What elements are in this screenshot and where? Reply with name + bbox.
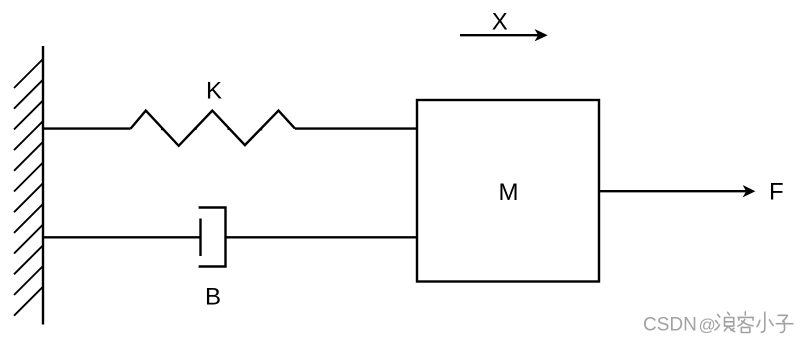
mass M box <box>417 100 599 282</box>
wire damper left lead <box>43 236 201 238</box>
hanzi lang right part <box>724 312 734 331</box>
svg-text:F: F <box>769 179 784 206</box>
arrow F shaft <box>599 190 746 192</box>
svg-text:@: @ <box>699 316 716 335</box>
damper B cylinder <box>199 208 226 267</box>
damper B piston <box>199 219 201 257</box>
arrow X shaft <box>460 34 538 36</box>
hanzi ke zhi <box>738 320 753 327</box>
svg-text:B: B <box>205 284 221 311</box>
wire spring left lead <box>43 127 131 129</box>
hanzi zi <box>776 315 793 332</box>
svg-text:M: M <box>499 179 519 206</box>
svg-text:K: K <box>206 78 222 105</box>
hanzi ke roof <box>738 312 753 320</box>
hanzi ke mouth <box>741 327 750 332</box>
wall <box>42 46 44 325</box>
wall hatch <box>14 59 43 316</box>
svg-text:CSDN: CSDN <box>643 315 697 336</box>
spring crossing dots <box>161 127 262 130</box>
svg-text:X: X <box>492 8 508 35</box>
wire damper right lead <box>226 236 418 238</box>
arrow F head <box>743 185 756 197</box>
wire spring right lead <box>295 127 417 129</box>
spring K <box>131 111 295 146</box>
hanzi lang water radical <box>715 314 720 330</box>
watermark hanzi 浪客小子 <box>715 312 793 333</box>
arrow X head <box>535 29 548 41</box>
hanzi xiao <box>757 312 773 332</box>
